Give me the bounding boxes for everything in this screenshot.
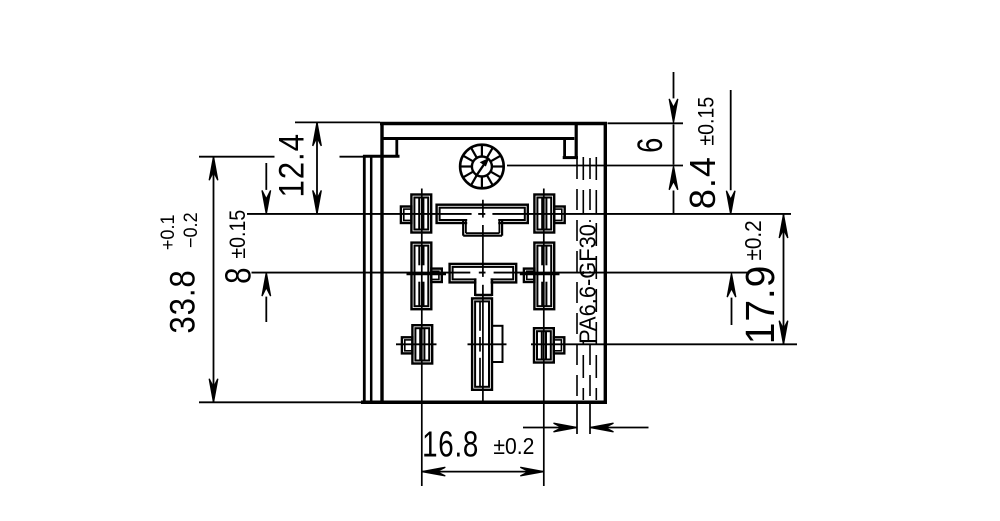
- svg-text:12.4: 12.4: [273, 133, 312, 197]
- svg-text:PA6.6-GF30: PA6.6-GF30: [575, 224, 601, 344]
- inner top wall line: [384, 137, 575, 140]
- housing body top edge: [380, 122, 607, 126]
- svg-text:±0.2: ±0.2: [493, 433, 534, 459]
- contact cavity row2 center: [450, 264, 517, 296]
- tolerance text +-0.2 right: [740, 220, 766, 260]
- dimension 17.9 lines and arrows: [779, 215, 788, 345]
- contact cavity row3 right: [534, 328, 564, 362]
- tolerance text +-0.15 right: [695, 97, 719, 146]
- left mounting flange outer edge: [363, 155, 366, 404]
- dimension 33.8 +0.1/-0.2 lines and arrows: [199, 157, 363, 403]
- dimension text 17.9: [738, 265, 783, 345]
- svg-text:+0.1: +0.1: [157, 214, 179, 250]
- row 2 centerline: [252, 272, 748, 274]
- svg-text:8: 8: [218, 267, 258, 283]
- svg-text:33.8: 33.8: [164, 269, 203, 333]
- right column centerline / 16.8 extension: [543, 189, 545, 487]
- dimension text 33.8: [164, 269, 203, 333]
- tolerance text +-0.15 left: [226, 210, 250, 259]
- dimension 16.8 lines and arrows: [422, 467, 544, 476]
- left mounting flange inner line: [370, 158, 373, 402]
- contact cavity row1 center: [437, 205, 528, 236]
- contact cavity row3 left: [402, 325, 432, 363]
- contact cavity row1 right: [534, 195, 564, 233]
- material text PA6.6-GF30 background: [579, 222, 596, 342]
- dimension text 12.4: [273, 133, 312, 197]
- left column centerline / 16.8 extension: [421, 189, 423, 487]
- dimension text 16.8: [422, 424, 479, 464]
- dimension text 6: [631, 138, 670, 153]
- dimension 8.4 lines and arrows: [726, 90, 735, 325]
- svg-text:±0.15: ±0.15: [695, 97, 719, 146]
- right pocket left wall: [563, 140, 566, 159]
- svg-text:±0.15: ±0.15: [226, 210, 250, 259]
- svg-text:6: 6: [631, 138, 670, 153]
- row 3 centerline segments: [396, 343, 797, 345]
- rib width dimension arrows: [523, 404, 649, 434]
- svg-text:±0.2: ±0.2: [740, 220, 766, 260]
- hidden rib line 3 (dashed): [589, 158, 591, 400]
- tolerance text +0.1: [157, 214, 179, 250]
- tolerance text -0.2: [179, 212, 201, 248]
- tolerance text +-0.2 bottom: [493, 433, 534, 459]
- hidden rib line 1 (dashed): [576, 158, 578, 400]
- left pocket vertical wall: [395, 140, 398, 157]
- housing body left wall: [380, 122, 383, 404]
- housing body bottom edge: [361, 400, 607, 404]
- contact cavity row2 left: [407, 243, 447, 310]
- coding circle symbol: [460, 145, 504, 189]
- svg-text:8.4: 8.4: [682, 156, 723, 209]
- contact cavity row2 right: [520, 243, 560, 310]
- coding circle leader line: [507, 165, 683, 167]
- dimension text 8: [218, 267, 258, 283]
- contact cavity row1 left: [401, 195, 431, 233]
- svg-text:17.9: 17.9: [738, 265, 783, 345]
- hidden rib line 4 (dashed): [595, 157, 597, 400]
- center column centerline: [482, 200, 484, 404]
- housing body right wall: [604, 122, 607, 404]
- right interior wall: [575, 123, 578, 158]
- dimension 12.4 lines and arrows: [295, 122, 380, 213]
- hidden rib line 2 (dashed): [582, 157, 584, 400]
- dimension 6 lines and arrows: [608, 72, 684, 214]
- left flange top edge / left pocket bottom: [363, 155, 400, 158]
- material text PA6.6-GF30: [575, 224, 601, 344]
- dimension text 8.4: [682, 156, 723, 209]
- svg-text:−0.2: −0.2: [179, 212, 201, 248]
- dimension 8 lines and arrows: [262, 163, 271, 322]
- svg-text:16.8: 16.8: [422, 424, 479, 464]
- contact cavity row3 center: [472, 298, 502, 389]
- right pocket bottom edge: [563, 156, 578, 159]
- row 1 centerline: [247, 213, 791, 215]
